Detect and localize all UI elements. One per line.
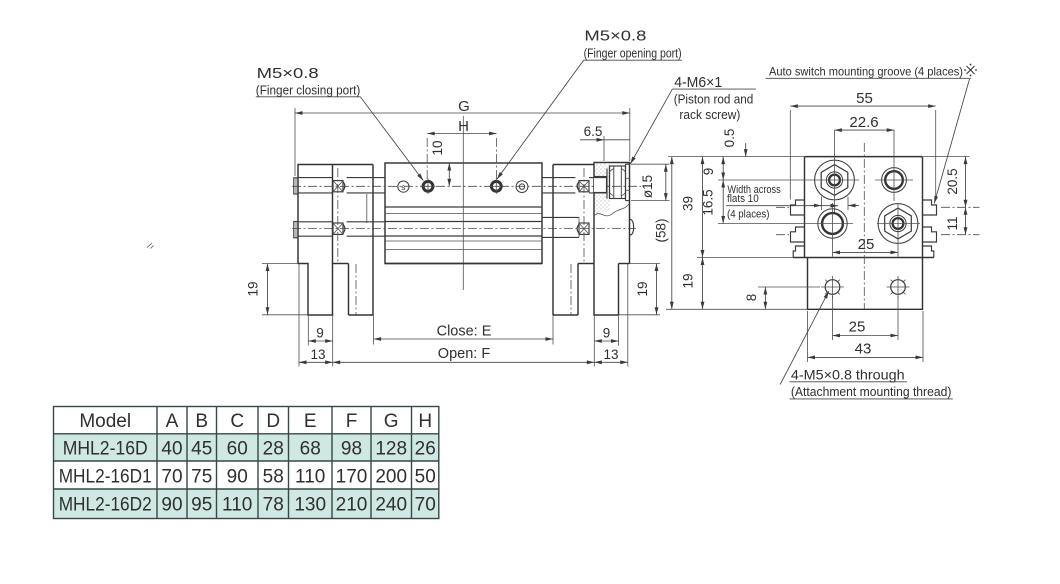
svg-text:90: 90 bbox=[227, 467, 248, 488]
svg-text:(Piston rod and: (Piston rod and bbox=[674, 93, 754, 107]
symbol S circle bbox=[398, 181, 409, 192]
left finger tab row1 bbox=[294, 178, 298, 194]
svg-text:19: 19 bbox=[681, 273, 696, 288]
svg-text:68: 68 bbox=[300, 439, 321, 460]
svg-text:9: 9 bbox=[316, 326, 324, 341]
bracket section stipple bbox=[594, 163, 610, 215]
dimension 10 bbox=[430, 140, 449, 186]
svg-text:110: 110 bbox=[222, 495, 252, 516]
svg-text:9: 9 bbox=[701, 168, 716, 176]
svg-text:s: s bbox=[401, 182, 405, 192]
svg-text:(Finger closing port): (Finger closing port) bbox=[256, 84, 360, 98]
svg-text:A: A bbox=[166, 411, 179, 432]
left screw centerline vertical bbox=[337, 168, 339, 262]
svg-text:39: 39 bbox=[681, 196, 696, 211]
left finger tab row2 bbox=[294, 222, 298, 238]
dimension 55 bbox=[790, 90, 935, 200]
extension lines bottom right bbox=[594, 264, 628, 367]
svg-text:50: 50 bbox=[415, 467, 436, 488]
svg-text:78: 78 bbox=[263, 495, 284, 516]
port P1 (finger closing port) bbox=[421, 179, 436, 195]
extension lines bottom left bbox=[299, 264, 333, 367]
vertical centerline of body bbox=[462, 116, 464, 290]
dimension 13 right bbox=[594, 347, 628, 363]
svg-text:26: 26 bbox=[415, 439, 436, 460]
guide rod row2 left bbox=[298, 222, 385, 236]
svg-text:0.5: 0.5 bbox=[722, 129, 737, 148]
svg-text:240: 240 bbox=[375, 495, 407, 516]
port P2 (finger opening port) bbox=[489, 179, 504, 195]
svg-text:13: 13 bbox=[310, 347, 325, 362]
svg-text:G: G bbox=[458, 98, 470, 115]
svg-text:10: 10 bbox=[430, 140, 445, 155]
svg-text:(4 places): (4 places) bbox=[727, 209, 770, 221]
svg-text:(58): (58) bbox=[654, 218, 669, 242]
svg-text:C: C bbox=[230, 411, 244, 432]
svg-text:MHL2-16D: MHL2-16D bbox=[63, 439, 148, 460]
dimension 19 left bbox=[246, 264, 309, 315]
dimension G bbox=[295, 98, 630, 176]
piston rod nut bbox=[610, 166, 626, 199]
left plate lower centerline bbox=[355, 264, 357, 316]
symbol double circle bbox=[516, 181, 528, 193]
front view right edge with switch groove tabs bbox=[922, 157, 924, 258]
svg-text:55: 55 bbox=[856, 90, 873, 107]
svg-text:E: E bbox=[304, 411, 317, 432]
right plate lower centerline bbox=[570, 264, 572, 316]
svg-text:H: H bbox=[418, 411, 432, 432]
mounting hole bottom-left bbox=[821, 276, 844, 298]
break wavy line on bracket bbox=[594, 203, 630, 216]
left finger outline bbox=[298, 165, 333, 316]
guide rod row1 left bbox=[298, 178, 385, 193]
dimension 20.5 bbox=[945, 157, 966, 208]
svg-text:rack screw): rack screw) bbox=[679, 108, 740, 122]
bearing block row1 right bbox=[577, 181, 589, 192]
dimension 19 right bbox=[619, 264, 661, 315]
front view plate top edge bbox=[805, 156, 923, 158]
rod flange disc bbox=[626, 164, 630, 200]
svg-text:4-M6×1: 4-M6×1 bbox=[674, 74, 722, 91]
svg-text:H: H bbox=[458, 118, 469, 135]
row2 horizontal centerline bbox=[292, 228, 636, 230]
dimension 9 right bbox=[594, 326, 618, 342]
svg-text:98: 98 bbox=[341, 439, 362, 460]
svg-text:45: 45 bbox=[191, 439, 212, 460]
dimension 9 front bbox=[701, 157, 723, 180]
svg-text:G: G bbox=[384, 411, 399, 432]
svg-text:6.5: 6.5 bbox=[584, 124, 603, 139]
bearing block row2 right bbox=[577, 223, 589, 234]
washer lines bbox=[607, 166, 610, 199]
rod tip bump right bbox=[630, 219, 634, 235]
svg-text:25: 25 bbox=[858, 236, 875, 253]
mounting hole bottom-right bbox=[887, 276, 910, 298]
svg-text:110: 110 bbox=[295, 467, 325, 488]
boss top-left piston hex bbox=[808, 130, 859, 213]
stray mark bbox=[147, 243, 154, 249]
front view plate bottom edge bbox=[793, 257, 934, 259]
groove centerline dashes right bbox=[941, 207, 980, 234]
svg-text:22.6: 22.6 bbox=[849, 114, 878, 131]
svg-text:11: 11 bbox=[945, 216, 960, 230]
right finger and rod bracket outline bbox=[594, 163, 630, 316]
label M5x0.8 finger opening port bbox=[497, 28, 682, 180]
front view lower block bbox=[808, 258, 923, 310]
svg-text:200: 200 bbox=[375, 467, 407, 488]
dimension 43 bbox=[808, 311, 924, 362]
shared extension line bottom 58 bbox=[666, 308, 808, 310]
row1 horizontal centerline bbox=[292, 185, 641, 187]
svg-text:Open: F: Open: F bbox=[438, 346, 491, 362]
label M5x0.8 finger closing port bbox=[256, 65, 423, 181]
svg-text:40: 40 bbox=[161, 439, 182, 460]
dimension width across flats bbox=[811, 197, 860, 211]
svg-text:F: F bbox=[346, 411, 358, 432]
svg-text:(Finger opening port): (Finger opening port) bbox=[584, 47, 682, 61]
svg-text:90: 90 bbox=[161, 495, 182, 516]
svg-text:MHL2-16D2: MHL2-16D2 bbox=[59, 495, 152, 516]
extension lines E bbox=[374, 315, 553, 345]
svg-text:210: 210 bbox=[336, 495, 368, 516]
svg-text:9: 9 bbox=[603, 326, 611, 341]
dimension 16.5 front bbox=[701, 180, 724, 224]
svg-text:(Attachment mounting thread): (Attachment mounting thread) bbox=[791, 385, 952, 399]
svg-text:19: 19 bbox=[246, 281, 261, 296]
piston rack rod row2 right bbox=[542, 217, 579, 237]
bottom edge line y263.5 segments bbox=[262, 263, 660, 265]
dimension 8 bbox=[744, 287, 820, 309]
guide rod row1 right bbox=[542, 178, 575, 193]
front view left edge with switch groove tabs bbox=[804, 157, 806, 258]
svg-text:43: 43 bbox=[855, 341, 872, 358]
dimension 19 front bbox=[681, 258, 703, 310]
svg-text:70: 70 bbox=[415, 495, 436, 516]
svg-text:170: 170 bbox=[336, 467, 368, 488]
svg-text:20.5: 20.5 bbox=[945, 168, 960, 194]
svg-text:60: 60 bbox=[227, 439, 248, 460]
svg-text:130: 130 bbox=[294, 495, 326, 516]
svg-text:25: 25 bbox=[849, 319, 866, 336]
svg-text:MHL2-16D1: MHL2-16D1 bbox=[59, 467, 152, 488]
right attachment plate bbox=[553, 165, 594, 316]
label 4-M5x0.8 through attachment mounting thread bbox=[780, 291, 953, 399]
svg-text:4-M5×0.8 through: 4-M5×0.8 through bbox=[791, 367, 905, 383]
svg-text:75: 75 bbox=[191, 467, 212, 488]
dimension 39 bbox=[681, 157, 703, 258]
svg-text:Auto switch mounting groove (4: Auto switch mounting groove (4 places) bbox=[769, 65, 963, 79]
bearing block row2 left bbox=[333, 223, 345, 234]
right screw centerline vertical bbox=[583, 168, 585, 262]
dimension 11 bbox=[945, 207, 966, 234]
svg-text:28: 28 bbox=[263, 439, 284, 460]
dimension 25 middle bbox=[833, 236, 899, 253]
svg-text:flats 10: flats 10 bbox=[727, 193, 759, 205]
main body of gripper (side view) bbox=[385, 163, 542, 264]
extension line plate bottom bbox=[697, 257, 793, 259]
specification table bbox=[54, 407, 439, 519]
dimension 22.6 bbox=[834, 114, 894, 131]
boss top-right guide bush bbox=[875, 130, 913, 201]
dimension 0.5 bbox=[722, 129, 746, 157]
dimension dia 15 bbox=[631, 164, 670, 200]
rod into bracket row1 bbox=[589, 178, 607, 193]
dimension 25 bottom bbox=[833, 296, 899, 340]
svg-text:19: 19 bbox=[635, 281, 650, 296]
svg-text:95: 95 bbox=[191, 495, 212, 516]
svg-text:70: 70 bbox=[161, 467, 182, 488]
dimension Close E bbox=[374, 324, 553, 340]
front view vertical centerline bbox=[863, 143, 865, 309]
label 4-M6x1 piston rod and rack screw bbox=[630, 74, 756, 164]
dimension 6.5 bbox=[580, 124, 630, 161]
svg-text:D: D bbox=[266, 411, 280, 432]
extension line row1 bbox=[718, 179, 808, 181]
bearing block row1 left bbox=[333, 181, 345, 192]
svg-text:M5×0.8: M5×0.8 bbox=[584, 28, 646, 45]
dimension H bbox=[427, 118, 496, 181]
svg-text:Model: Model bbox=[79, 411, 131, 432]
svg-text:58: 58 bbox=[263, 467, 284, 488]
svg-text:8: 8 bbox=[744, 294, 759, 302]
label auto switch mounting groove bbox=[766, 64, 977, 204]
svg-text:ø15: ø15 bbox=[640, 175, 655, 198]
svg-text:B: B bbox=[195, 411, 208, 432]
dimension (58) bbox=[654, 157, 672, 310]
svg-text:128: 128 bbox=[375, 439, 407, 460]
dimension Open F bbox=[333, 346, 595, 362]
groove centerline dashes left bbox=[776, 207, 789, 234]
svg-text:13: 13 bbox=[603, 347, 618, 362]
boss bottom-right piston hex bbox=[877, 203, 920, 257]
svg-text:Close: E: Close: E bbox=[437, 324, 492, 340]
shared extension line top bbox=[668, 156, 970, 158]
extension line row2 bbox=[718, 223, 812, 225]
label width across flats bbox=[726, 184, 838, 221]
dimension 13 left bbox=[299, 347, 333, 363]
left attachment plate bbox=[333, 165, 374, 316]
dimension 9 left bbox=[308, 326, 332, 342]
boss bottom-left rack bush bbox=[812, 203, 853, 257]
svg-text:M5×0.8: M5×0.8 bbox=[257, 65, 319, 82]
